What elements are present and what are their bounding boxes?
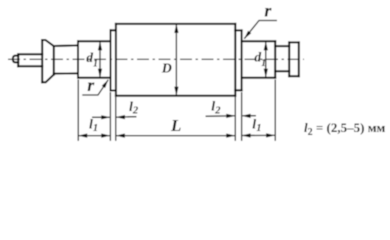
svg-text:L: L [170,116,181,135]
svg-text:r: r [264,1,272,21]
svg-text:r: r [87,75,95,95]
svg-text:D: D [161,61,172,76]
